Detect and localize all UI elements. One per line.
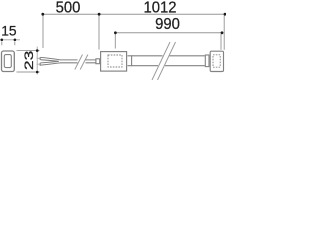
svg-text:500: 500	[56, 0, 81, 17]
svg-text:23: 23	[23, 51, 37, 70]
svg-text:1012: 1012	[143, 0, 176, 17]
svg-text:990: 990	[155, 15, 180, 33]
svg-text:15: 15	[1, 23, 17, 38]
